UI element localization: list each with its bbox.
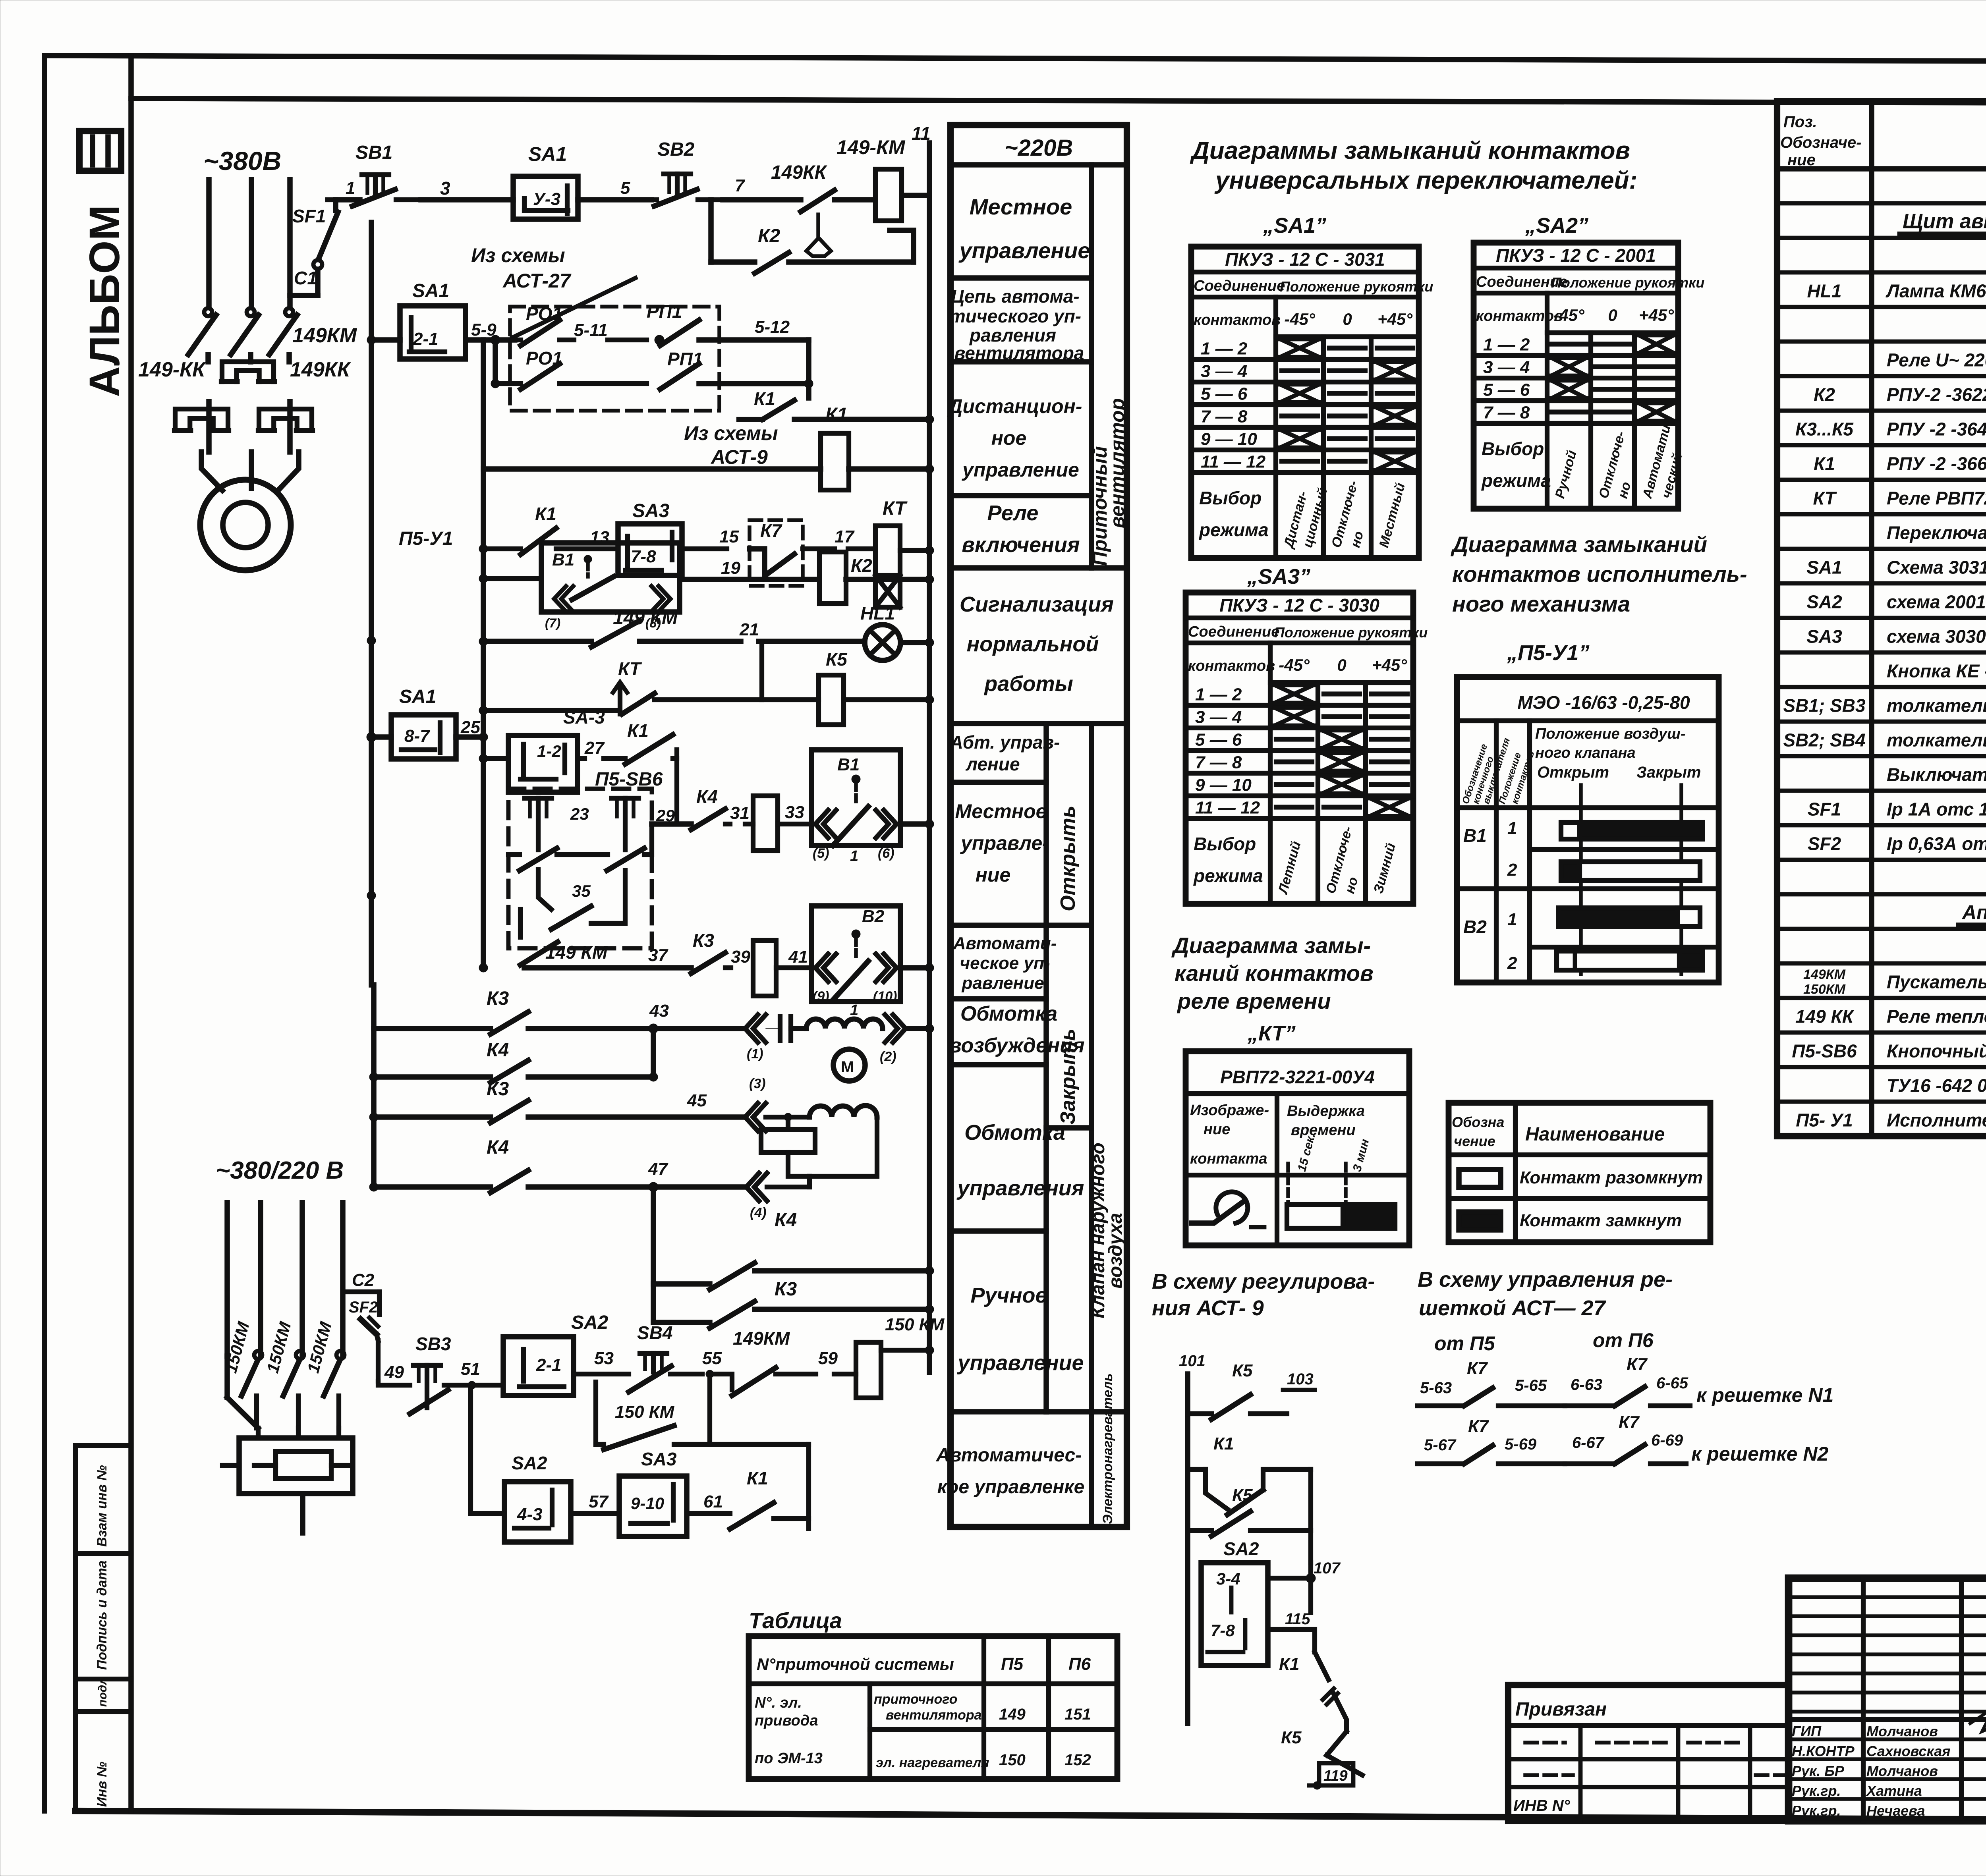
svg-text:1 — 2: 1 — 2: [1201, 339, 1248, 359]
svg-text:7-8: 7-8: [1211, 1621, 1235, 1640]
svg-text:Аппаратура по месту: Аппаратура по месту: [1961, 901, 1986, 924]
svg-text:49: 49: [384, 1363, 404, 1382]
svg-text:Абт. управ-: Абт. управ-: [950, 732, 1060, 753]
parts row 6: [1777, 374, 1986, 378]
svg-text:управле-: управле-: [960, 832, 1049, 854]
svg-text:7 — 8: 7 — 8: [1195, 753, 1242, 772]
svg-text:работы: работы: [983, 672, 1073, 696]
svg-text:SA2: SA2: [1806, 592, 1842, 612]
svg-text:~380/220 В: ~380/220 В: [216, 1157, 344, 1184]
svg-text:150 КМ: 150 КМ: [885, 1315, 945, 1334]
svg-text:Местное: Местное: [970, 194, 1072, 219]
svg-text:SF2: SF2: [1808, 834, 1841, 854]
svg-text:-45°: -45°: [1279, 656, 1310, 674]
svg-text:контактов: контактов: [1188, 658, 1275, 674]
svg-text:Нечаева: Нечаева: [1866, 1803, 1925, 1819]
field winding inductor: [806, 1019, 883, 1029]
svg-text:5-67: 5-67: [1424, 1436, 1457, 1454]
svg-text:3-4: 3-4: [1216, 1569, 1240, 1588]
svg-text:Щит автоматизации 5ЩА: Щит автоматизации 5ЩА: [1903, 210, 1986, 233]
rung P5-U1: [483, 576, 541, 581]
chevron 2: [885, 1015, 898, 1042]
svg-text:149 КМ: 149 КМ: [613, 608, 678, 629]
svg-text:схема 3030: схема 3030: [1887, 626, 1986, 647]
svg-text:РПУ -2 -36440 УЗА: РПУ -2 -36440 УЗА: [1887, 419, 1986, 440]
svg-text:ного механизма: ного механизма: [1452, 591, 1630, 616]
svg-text:К2: К2: [758, 226, 780, 247]
svg-text:SF1: SF1: [292, 206, 326, 226]
svg-text:Наименование: Наименование: [1525, 1124, 1665, 1145]
parts row 7: [1777, 409, 1986, 413]
svg-text:КТ: КТ: [1813, 488, 1837, 509]
svg-text:1-2: 1-2: [537, 742, 561, 760]
bottom parameters table: [749, 1636, 1117, 1779]
contactor 150KM contacts: [254, 1351, 262, 1359]
holding branch 150KM: [593, 1382, 598, 1444]
svg-text:привода: привода: [755, 1712, 818, 1729]
svg-text:45: 45: [687, 1091, 707, 1110]
svg-text:В схему управления ре-: В схему управления ре-: [1418, 1268, 1673, 1291]
parts row 26: [1777, 1065, 1986, 1069]
svg-text:чение: чение: [1454, 1133, 1495, 1149]
chevron out 10: [876, 954, 889, 982]
svg-text:Обмотка: Обмотка: [960, 1002, 1057, 1025]
svg-text:включения: включения: [962, 533, 1080, 557]
svg-text:115: 115: [1285, 1610, 1311, 1628]
parts row 2: [1777, 236, 1986, 240]
parts row 17: [1777, 754, 1986, 759]
contactor 149KM main contacts: [204, 308, 212, 316]
svg-text:149КМ: 149КМ: [1803, 967, 1846, 982]
parts row 18: [1777, 789, 1986, 793]
parts row 22: [1777, 927, 1986, 931]
time bar: [1287, 1204, 1395, 1228]
svg-text:Обозначе-: Обозначе-: [1780, 134, 1862, 151]
parts table: [1777, 101, 1986, 1136]
svg-text:К4: К4: [487, 1137, 509, 1158]
svg-text:каний контактов: каний контактов: [1175, 961, 1374, 986]
phase wires 380V: [206, 179, 212, 306]
svg-text:„КТ”: „КТ”: [1247, 1021, 1296, 1045]
svg-text:SA1: SA1: [528, 143, 567, 165]
svg-text:5 — 6: 5 — 6: [1483, 380, 1530, 400]
svg-text:ного клапана: ного клапана: [1535, 745, 1636, 761]
svg-text:5: 5: [620, 178, 630, 198]
wire: [578, 197, 651, 203]
chevron 7: [554, 586, 566, 612]
svg-text:SB2: SB2: [657, 139, 695, 160]
svg-text:В2: В2: [862, 907, 885, 926]
svg-text:Электронагреватель: Электронагреватель: [1100, 1373, 1115, 1524]
button SB with contact 29: [612, 796, 639, 801]
svg-text:Диаграмма замы-: Диаграмма замы-: [1171, 933, 1371, 958]
svg-text:9 — 10: 9 — 10: [1195, 776, 1252, 795]
svg-text:SB4: SB4: [637, 1322, 672, 1343]
svg-text:Н.КОНТР: Н.КОНТР: [1792, 1743, 1855, 1759]
svg-text:Выбор: Выбор: [1199, 488, 1262, 508]
svg-text:контакта: контакта: [1190, 1150, 1267, 1167]
parts row 24: [1777, 996, 1986, 1000]
svg-text:В1: В1: [837, 755, 860, 774]
svg-text:41: 41: [788, 947, 808, 967]
svg-text:SA3: SA3: [1806, 626, 1842, 647]
svg-text:55: 55: [702, 1349, 722, 1368]
svg-text:Открыт: Открыт: [1537, 764, 1609, 781]
svg-text:Контакт замкнут: Контакт замкнут: [1520, 1211, 1682, 1230]
svg-text:МЭО -16/63 -0,25-80: МЭО -16/63 -0,25-80: [1517, 692, 1690, 713]
parts row 14: [1777, 650, 1986, 655]
svg-text:3 — 4: 3 — 4: [1483, 358, 1530, 377]
svg-text:149КМ: 149КМ: [292, 324, 357, 347]
svg-text:К1: К1: [1279, 1654, 1300, 1674]
svg-text:9-10: 9-10: [631, 1494, 664, 1513]
svg-text:Положение воздуш-: Положение воздуш-: [1535, 726, 1686, 742]
svg-text:АЛЬБОМ: АЛЬБОМ: [80, 205, 128, 397]
svg-text:ПКУЗ - 12 С - 3030: ПКУЗ - 12 С - 3030: [1219, 595, 1379, 616]
svg-text:Из схемы: Из схемы: [471, 244, 565, 266]
svg-text:Контакт разомкнут: Контакт разомкнут: [1520, 1168, 1703, 1187]
svg-text:47: 47: [648, 1159, 668, 1179]
phase wires 380/220: [224, 1202, 230, 1356]
svg-text:ние: ние: [1204, 1121, 1230, 1138]
svg-text:2: 2: [1507, 953, 1517, 973]
svg-text:Диаграмма замыканий: Диаграмма замыканий: [1451, 532, 1707, 557]
svg-text:АСТ-27: АСТ-27: [502, 270, 572, 292]
svg-text:(7): (7): [545, 616, 560, 630]
svg-text:В схему регулирова-: В схему регулирова-: [1152, 1270, 1375, 1293]
svg-text:7: 7: [735, 176, 746, 195]
svg-text:149-КК: 149-КК: [138, 358, 206, 381]
svg-text:К7: К7: [1619, 1413, 1640, 1432]
svg-text:ТУ16 -642 006-83: ТУ16 -642 006-83: [1887, 1075, 1986, 1096]
svg-text:101: 101: [1179, 1352, 1206, 1370]
rung A wire: [652, 821, 691, 827]
svg-text:+45°: +45°: [1372, 656, 1407, 674]
svg-text:к решетке N2: к решетке N2: [1691, 1443, 1828, 1465]
svg-text:7 — 8: 7 — 8: [1483, 403, 1530, 423]
rung remote start: [483, 466, 821, 472]
svg-text:шеткой АСТ— 27: шеткой АСТ— 27: [1419, 1296, 1607, 1320]
svg-text:П5- У1: П5- У1: [1796, 1110, 1853, 1131]
svg-text:33: 33: [785, 803, 804, 822]
svg-text:Рук.гр.: Рук.гр.: [1792, 1803, 1841, 1819]
svg-text:Iр 1А отс 1.3: Iр 1А отс 1.3: [1887, 799, 1986, 820]
svg-text:режима: режима: [1198, 519, 1269, 540]
svg-text:39: 39: [731, 947, 750, 967]
svg-text:6-63: 6-63: [1571, 1376, 1602, 1393]
svg-text:SA1: SA1: [1806, 557, 1842, 578]
legend table: [1449, 1103, 1710, 1242]
svg-text:5-63: 5-63: [1420, 1379, 1452, 1397]
svg-text:61: 61: [703, 1492, 723, 1511]
svg-text:„П5-У1”: „П5-У1”: [1507, 641, 1589, 665]
valve box V1: [811, 750, 900, 845]
heater element: [239, 1438, 353, 1494]
svg-text:Цепь автома-: Цепь автома-: [951, 286, 1079, 307]
svg-text:Переключатель ПКУЗ -12 С Т: Переключатель ПКУЗ -12 С ТУ16-526, 047 -…: [1887, 523, 1986, 543]
resistor parallel: [786, 1117, 790, 1129]
svg-text:К4: К4: [696, 786, 718, 807]
svg-text:Положение рукоятки: Положение рукоятки: [1280, 278, 1433, 295]
svg-text:контактов: контактов: [1194, 312, 1281, 328]
selector diagram table SA1: [1191, 247, 1419, 558]
svg-text:Открыть: Открыть: [1057, 806, 1080, 911]
svg-text:Положение рукоятки: Положение рукоятки: [1551, 274, 1704, 291]
svg-text:149: 149: [999, 1706, 1026, 1723]
svg-text:универсальных переключателей:: универсальных переключателей:: [1214, 167, 1637, 194]
svg-text:„SA2”: „SA2”: [1525, 214, 1588, 237]
right bus: [927, 195, 932, 1372]
svg-text:Реле РВП72-3121-00У4 U~220В ТУ: Реле РВП72-3121-00У4 U~220В ТУ16-523.472…: [1887, 488, 1986, 509]
svg-text:23: 23: [570, 805, 589, 823]
svg-text:3: 3: [440, 178, 450, 199]
svg-text:Рук. БР: Рук. БР: [1792, 1763, 1845, 1779]
svg-text:К4: К4: [487, 1040, 509, 1061]
contact K7 interlock: [750, 520, 803, 586]
chevron 8: [651, 586, 663, 612]
svg-text:Сигнализация: Сигнализация: [960, 593, 1114, 616]
svg-text:Таблица: Таблица: [749, 1608, 842, 1633]
title block frame: [1789, 1578, 1986, 1821]
parts row 16: [1777, 720, 1986, 724]
svg-text:К3: К3: [487, 988, 509, 1009]
svg-text:Сахновская: Сахновская: [1866, 1743, 1950, 1759]
svg-text:SA1: SA1: [399, 686, 436, 707]
svg-text:(2): (2): [880, 1049, 896, 1064]
svg-text:К7: К7: [1627, 1355, 1648, 1374]
svg-text:3 — 4: 3 — 4: [1201, 362, 1247, 381]
svg-text:Ручное: Ручное: [970, 1283, 1047, 1307]
svg-text:Молчанов: Молчанов: [1866, 1723, 1938, 1739]
svg-text:равление: равление: [961, 973, 1044, 993]
svg-text:SA-3: SA-3: [563, 707, 605, 728]
parts row 10: [1777, 512, 1986, 517]
parts row 12: [1777, 581, 1986, 586]
actuator contact table MEO: [1457, 677, 1719, 982]
svg-text:6-65: 6-65: [1656, 1374, 1688, 1392]
svg-text:0: 0: [1337, 656, 1346, 674]
svg-text:SF1: SF1: [1808, 799, 1841, 820]
time contact symbol: [1192, 1202, 1243, 1223]
svg-text:ние: ние: [1787, 151, 1816, 169]
svg-text:N°приточной системы: N°приточной системы: [757, 1655, 954, 1673]
svg-text:119: 119: [1323, 1768, 1348, 1784]
svg-text:37: 37: [648, 946, 668, 965]
svg-text:Закрыть: Закрыть: [1057, 1029, 1080, 1125]
svg-text:Лампа КМ6-60 ГОСТ 6: Лампа КМ6-60 ГОСТ 6940-74: [1886, 281, 1986, 301]
svg-text:43: 43: [649, 1001, 669, 1021]
svg-text:1: 1: [850, 848, 858, 865]
svg-text:вентилятора: вентилятора: [886, 1708, 982, 1723]
svg-text:2-1: 2-1: [413, 329, 439, 349]
svg-text:Реле тепловое: Реле тепловое: [1887, 1006, 1986, 1027]
svg-text:2: 2: [1507, 860, 1517, 880]
svg-text:C2: C2: [352, 1270, 375, 1290]
svg-text:Подпись и дата: Подпись и дата: [95, 1560, 110, 1670]
svg-text:Выдержка: Выдержка: [1287, 1103, 1365, 1119]
svg-text:Реле: Реле: [987, 501, 1039, 525]
svg-text:SB1; SB3: SB1; SB3: [1783, 695, 1865, 716]
svg-text:К7: К7: [1468, 1417, 1489, 1436]
svg-text:от П5: от П5: [1434, 1332, 1495, 1355]
svg-text:107: 107: [1314, 1559, 1341, 1577]
svg-text:ИНВ N°: ИНВ N°: [1513, 1797, 1571, 1814]
svg-text:эл. нагревателя: эл. нагревателя: [876, 1755, 989, 1770]
svg-text:Привязан: Привязан: [1515, 1699, 1607, 1720]
parts row 20: [1777, 858, 1986, 862]
svg-text:У-3: У-3: [533, 189, 560, 209]
svg-text:Кнопочный пост управления ПКЕ-: Кнопочный пост управления ПКЕ-222- 2У2: [1887, 1041, 1986, 1062]
svg-text:11 — 12: 11 — 12: [1195, 798, 1260, 818]
svg-text:Обмотка: Обмотка: [964, 1121, 1065, 1145]
svg-text:57: 57: [589, 1492, 609, 1511]
svg-text:К5: К5: [1281, 1728, 1302, 1747]
svg-text:5 — 6: 5 — 6: [1195, 730, 1242, 750]
svg-text:C1: C1: [294, 268, 317, 288]
svg-text:В1: В1: [1463, 825, 1487, 846]
svg-text:М: М: [841, 1058, 854, 1076]
svg-text:(3): (3): [749, 1076, 766, 1091]
junction dots: [479, 544, 488, 553]
svg-text:Соединение: Соединение: [1188, 623, 1279, 640]
svg-text:Хатина: Хатина: [1866, 1783, 1922, 1799]
capacitor: [778, 1017, 782, 1040]
svg-text:1 — 2: 1 — 2: [1195, 685, 1242, 704]
svg-text:К2: К2: [851, 555, 872, 576]
svg-text:ческое уп-: ческое уп-: [960, 953, 1050, 973]
title block revision rows: [1789, 1595, 1986, 1599]
parts row 25: [1777, 1031, 1986, 1035]
svg-text:19: 19: [721, 558, 740, 578]
parts row 4: [1777, 305, 1986, 309]
dashes in privyazan: [1525, 1741, 1565, 1745]
svg-text:Кнопка КЕ -011 исполн. 2: Кнопка КЕ -011 исполн. 2 ТУ16 -526. 407 …: [1887, 661, 1986, 681]
svg-text:В2: В2: [1463, 917, 1487, 937]
svg-text:6-69: 6-69: [1651, 1432, 1683, 1449]
svg-text:К3: К3: [775, 1279, 797, 1300]
svg-text:К4: К4: [775, 1210, 797, 1231]
svg-text:53: 53: [594, 1349, 614, 1368]
svg-text:51: 51: [461, 1359, 480, 1379]
rung selectors: [468, 1385, 473, 1513]
svg-text:59: 59: [818, 1349, 838, 1368]
svg-text:152: 152: [1064, 1751, 1091, 1769]
rung B wire 37: [524, 965, 691, 971]
svg-text:К7: К7: [1467, 1359, 1488, 1378]
svg-text:К3...К5: К3...К5: [1795, 419, 1854, 440]
svg-text:35: 35: [572, 882, 591, 900]
svg-text:1: 1: [850, 1002, 858, 1019]
svg-text:контактов: контактов: [1476, 308, 1563, 324]
parts row 3: [1777, 270, 1986, 275]
svg-text:Схема 3031: Схема 3031: [1887, 557, 1986, 578]
svg-text:-45°: -45°: [1553, 306, 1585, 324]
svg-text:толкатель черный: толкатель черный: [1887, 730, 1986, 751]
svg-text:2-1: 2-1: [536, 1355, 562, 1375]
svg-text:приточного: приточного: [874, 1692, 957, 1707]
svg-text:31: 31: [730, 803, 750, 823]
parts row 19: [1777, 823, 1986, 828]
svg-text:SB1: SB1: [355, 142, 392, 163]
dashed group box AST-27: [510, 307, 719, 411]
svg-text:Рук.гр.: Рук.гр.: [1792, 1783, 1841, 1799]
svg-text:Реле U~ 220 В ТУ16: Реле U~ 220 В ТУ16-523. 331 -78: [1887, 350, 1986, 371]
svg-text:150: 150: [999, 1751, 1026, 1769]
svg-text:Дистанцион-: Дистанцион-: [947, 395, 1082, 417]
svg-text:SA3: SA3: [641, 1449, 677, 1469]
svg-text:7-8: 7-8: [631, 547, 656, 566]
riser to selector rung: [806, 1444, 811, 1529]
svg-text:0: 0: [1608, 306, 1617, 324]
svg-text:17: 17: [835, 527, 855, 546]
pривязан box: [1508, 1685, 1789, 1821]
wire top rung: [336, 197, 360, 203]
svg-text:Взам инв №: Взам инв №: [95, 1465, 110, 1547]
svg-text:управления: управления: [956, 1176, 1084, 1200]
chevron 4: [746, 1173, 759, 1201]
svg-text:1: 1: [346, 178, 355, 198]
riser from node 47: [651, 1187, 656, 1284]
svg-text:~380В: ~380В: [203, 146, 281, 176]
svg-text:воздуха: воздуха: [1105, 1213, 1126, 1289]
svg-text:подл: подл: [96, 1677, 109, 1707]
contact 35: [538, 870, 551, 909]
svg-text:Изображе-: Изображе-: [1190, 1102, 1269, 1119]
svg-text:149-КМ: 149-КМ: [837, 136, 906, 158]
svg-text:21: 21: [739, 620, 759, 639]
selector diagram table SA2: [1474, 243, 1678, 509]
svg-text:РО1: РО1: [526, 348, 562, 369]
svg-text:К7: К7: [760, 520, 782, 541]
svg-text:ния АСТ- 9: ния АСТ- 9: [1152, 1296, 1264, 1320]
svg-text:Обозна: Обозна: [1452, 1114, 1504, 1130]
parts row 11: [1777, 547, 1986, 551]
inner frame line: [131, 98, 1986, 104]
svg-text:N°. эл.: N°. эл.: [755, 1695, 802, 1711]
motor M1: [200, 480, 291, 570]
svg-text:контактов исполнитель-: контактов исполнитель-: [1452, 562, 1747, 587]
svg-text:К1: К1: [747, 1468, 768, 1488]
svg-text:„SA3”: „SA3”: [1247, 565, 1310, 589]
svg-text:149КМ: 149КМ: [733, 1328, 790, 1349]
svg-text:Выбор: Выбор: [1194, 834, 1256, 854]
chevron in 9: [815, 954, 828, 982]
svg-text:ление: ление: [965, 754, 1020, 774]
contact state bars: [1561, 822, 1580, 839]
svg-text:управление: управление: [961, 459, 1079, 481]
svg-text:ПКУЗ - 12 С - 3031: ПКУЗ - 12 С - 3031: [1225, 249, 1385, 270]
svg-text:К1: К1: [535, 504, 556, 524]
svg-text:К5: К5: [826, 649, 848, 670]
svg-text:1 — 2: 1 — 2: [1483, 335, 1530, 355]
svg-text:К5: К5: [1232, 1361, 1253, 1380]
svg-text:5 — 6: 5 — 6: [1201, 384, 1248, 404]
svg-text:11 — 12: 11 — 12: [1201, 452, 1266, 472]
svg-text:(1): (1): [747, 1046, 763, 1062]
svg-text:Закрыт: Закрыт: [1636, 764, 1701, 781]
svg-text:П5-SB6: П5-SB6: [1792, 1041, 1857, 1062]
svg-text:15: 15: [719, 527, 739, 546]
svg-text:27: 27: [584, 738, 605, 758]
svg-text:по ЭМ-13: по ЭМ-13: [755, 1750, 823, 1767]
svg-text:~220В: ~220В: [1005, 135, 1073, 161]
svg-text:ное: ное: [991, 427, 1027, 449]
wire node 49: [378, 1381, 410, 1385]
svg-text:вентилятор: вентилятор: [1106, 398, 1128, 528]
relay coil K4: [753, 940, 776, 996]
svg-text:Из схемы: Из схемы: [684, 422, 778, 444]
svg-text:Инв №: Инв №: [95, 1762, 110, 1807]
